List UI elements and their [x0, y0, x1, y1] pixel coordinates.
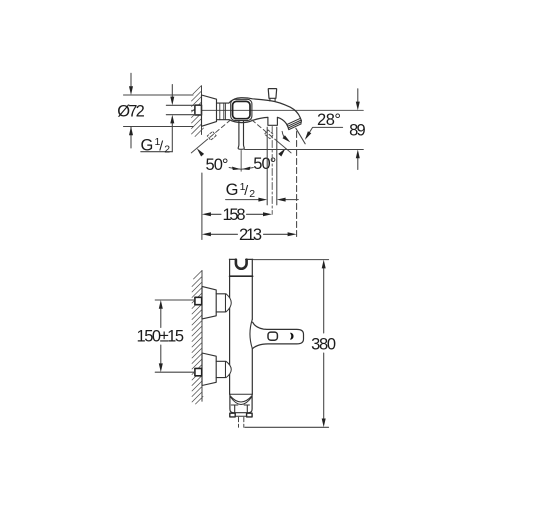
shower outlet stub — [268, 117, 278, 125]
cap bottom line — [230, 275, 253, 277]
lever crescent mark — [291, 333, 293, 339]
right extension line for 213 (dashed) — [296, 132, 298, 240]
outlet stub dashed — [239, 417, 244, 427]
dim 158 — [211, 213, 263, 215]
svg-text:50°: 50° — [206, 156, 229, 174]
body bottom line — [230, 393, 253, 395]
stub centerline — [271, 127, 273, 215]
dim G1/2 lower arrows — [226, 199, 299, 201]
wall line top view — [201, 86, 203, 135]
dim 380 extension lines — [245, 260, 329, 428]
bottom union face arc — [226, 361, 231, 377]
svg-text:2: 2 — [249, 188, 255, 200]
diverter cup outline — [230, 394, 252, 412]
svg-text:89: 89 — [349, 121, 366, 139]
spout top edge — [229, 98, 302, 121]
lever rod — [238, 121, 244, 149]
rosette inner square — [233, 101, 250, 118]
top union nut — [216, 294, 225, 312]
angle arc head left at centerline — [232, 167, 241, 170]
dim 380 line — [323, 269, 325, 419]
dim 89 arrows — [357, 89, 359, 170]
body top cap — [229, 258, 252, 260]
wall hatch bottom view — [192, 271, 203, 405]
28 deg jet ray — [296, 128, 305, 144]
svg-text:/: / — [244, 182, 248, 198]
dim 150 extension lines — [155, 300, 194, 372]
diverter flange feet — [230, 413, 252, 417]
rod centerline — [240, 151, 242, 172]
mousseur at spout tip — [287, 118, 301, 129]
dim 89 lower extension line — [245, 149, 364, 151]
top union face arc — [226, 294, 231, 312]
stub extension lines — [267, 127, 277, 205]
top union escutcheon cone — [202, 286, 216, 319]
G1/2 nipple — [195, 105, 202, 115]
28 deg angle arc — [282, 131, 284, 137]
svg-text:158: 158 — [223, 206, 246, 224]
svg-text:380: 380 — [311, 335, 336, 353]
svg-text:2: 2 — [164, 143, 170, 155]
28 deg leader arrowhead — [305, 131, 311, 140]
bottom union nut — [216, 361, 225, 377]
dim O72 extension lines — [124, 95, 194, 127]
bottom union escutcheon cone — [202, 353, 216, 386]
svg-text:213: 213 — [239, 226, 262, 244]
diverter smile arc 1 — [230, 396, 252, 402]
svg-text:G: G — [226, 181, 239, 199]
wall hatch top view — [192, 86, 204, 137]
dim O72 arrow lines — [130, 73, 132, 148]
angle arc arrowhead on right ray — [278, 148, 285, 156]
50 deg ray right (dashed) — [252, 120, 275, 139]
28 deg leader — [306, 127, 342, 137]
body cylinder — [217, 103, 230, 120]
rosette outer square — [231, 99, 252, 120]
lever button hole — [268, 332, 277, 340]
lever base arc — [250, 319, 252, 348]
svg-text:150±15: 150±15 — [137, 328, 185, 346]
bottom union wall square — [195, 368, 202, 375]
svg-text:/: / — [159, 138, 163, 154]
svg-text:50°: 50° — [253, 155, 276, 173]
dim G1/2 thread extension lines — [166, 105, 201, 114]
svg-text:Ø72: Ø72 — [117, 102, 145, 120]
escutcheon cone (side) — [202, 95, 217, 126]
wall line bottom view — [201, 271, 203, 402]
angle arc arrowhead on left ray — [197, 148, 204, 156]
flange middle line — [235, 415, 246, 417]
shower hook — [236, 260, 247, 269]
top union wall square — [195, 297, 202, 304]
angle arc head right at centerline — [242, 167, 251, 170]
dim G1/2 arrows — [171, 85, 173, 152]
svg-text:28°: 28° — [317, 111, 341, 129]
spout bottom edge — [229, 117, 288, 126]
label G1/2 top — [141, 151, 173, 153]
28 deg arc arrowhead — [283, 135, 291, 142]
diverter smile arc 2 — [230, 397, 251, 405]
diverter knob — [268, 89, 276, 99]
lever — [253, 322, 304, 348]
angle arc stub left — [229, 168, 241, 170]
dim 150 line — [160, 309, 162, 363]
lever knob phantom left — [207, 131, 216, 140]
dim 213 — [211, 233, 288, 235]
body column — [230, 259, 253, 394]
svg-text:G: G — [141, 137, 154, 155]
lever knob phantom right — [265, 130, 274, 139]
angle arc stub right — [242, 168, 254, 170]
left extension line for 158/213 — [201, 173, 203, 240]
wire centerline horizontal — [192, 109, 364, 111]
diverter shoulders — [231, 405, 249, 412]
50 deg ray left (dashed) — [208, 120, 231, 139]
